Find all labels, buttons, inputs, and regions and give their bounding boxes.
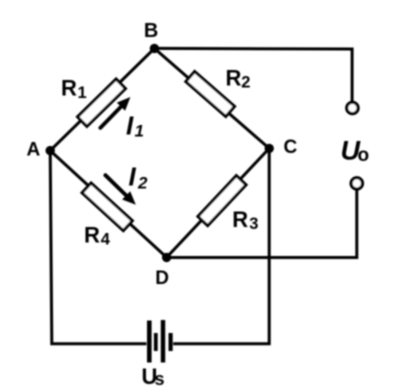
wire A down to bottom rail <box>50 151 146 344</box>
svg-text:o: o <box>358 145 370 166</box>
svg-text:B: B <box>144 20 158 42</box>
battery Us: long plate 1 <box>147 321 152 363</box>
resistor R2 <box>186 72 235 117</box>
svg-text:R: R <box>232 207 248 232</box>
current arrow I1 (points up-right along R1) <box>100 107 121 128</box>
wire B-C (bridge arm) <box>154 48 269 148</box>
svg-text:D: D <box>155 268 169 289</box>
svg-text:2: 2 <box>137 174 148 193</box>
wire C-D (bridge arm) <box>167 148 270 257</box>
current arrow I2 (points down-right along R4) <box>105 175 126 195</box>
resistor R1 <box>78 79 126 126</box>
wire lower output terminal to D (vertical + horizontal) <box>167 190 357 258</box>
svg-text:I: I <box>126 111 134 141</box>
wire D-A (bridge arm) <box>50 151 166 258</box>
battery Us: long plate 2 <box>161 320 165 363</box>
upper output terminal (open circle) <box>347 102 358 113</box>
wire A-B (bridge arm) <box>50 48 154 150</box>
svg-text:2: 2 <box>241 73 250 91</box>
node D junction dot <box>162 253 171 262</box>
lower output terminal (open circle) <box>351 178 362 189</box>
svg-text:C: C <box>284 137 298 158</box>
node C junction dot <box>265 144 274 153</box>
svg-text:A: A <box>27 140 41 161</box>
wire battery to C (bottom rail + right vertical) <box>173 148 269 343</box>
node A junction dot <box>46 146 55 155</box>
battery Us: short plate 1 <box>154 333 158 351</box>
svg-text:I: I <box>129 161 137 191</box>
svg-text:s: s <box>155 369 165 389</box>
svg-text:3: 3 <box>249 215 258 233</box>
svg-text:4: 4 <box>101 230 111 248</box>
svg-text:1: 1 <box>78 84 87 102</box>
wire B to upper output terminal (top horizontal + right vertical) <box>154 48 352 102</box>
node B junction dot <box>150 44 159 53</box>
svg-text:R: R <box>226 65 242 90</box>
resistor R3 <box>198 176 246 226</box>
svg-text:R: R <box>84 222 100 247</box>
battery Us: short plate 2 <box>169 333 173 351</box>
svg-text:1: 1 <box>135 122 144 141</box>
resistor R4 <box>82 183 132 231</box>
svg-text:R: R <box>61 76 77 101</box>
